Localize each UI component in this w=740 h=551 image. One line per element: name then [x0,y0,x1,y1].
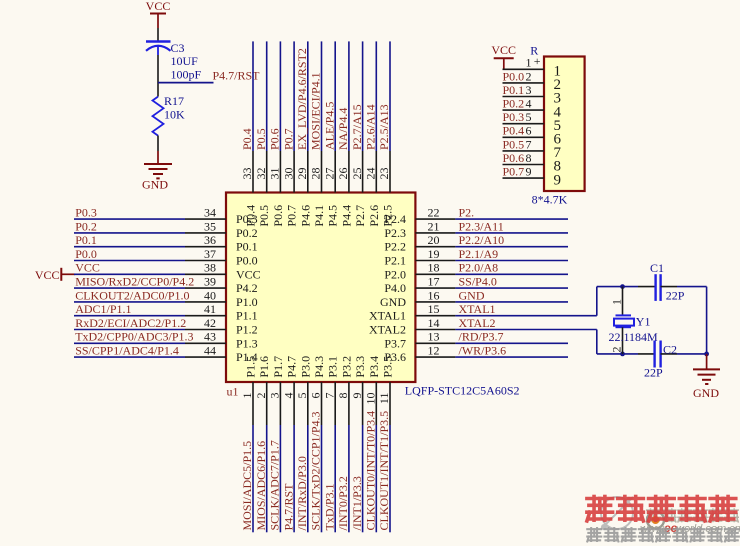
svg-text:LQFP-STC12C5A60S2: LQFP-STC12C5A60S2 [405,383,520,397]
svg-text:P4.1: P4.1 [312,205,326,227]
watermark url www.eeworld.com.cn [640,521,740,535]
resistor network R body [544,57,585,192]
svg-text:P2.0: P2.0 [384,267,406,281]
svg-text:Y1: Y1 [636,314,651,328]
svg-text:P2.4: P2.4 [384,212,406,226]
wire net CLKOUT2/ADC0/P1.0 (left) [74,301,185,303]
svg-text:VCC: VCC [75,261,100,275]
svg-text:SCLK/TxD2/CCP1/P4.3: SCLK/TxD2/CCP1/P4.3 [309,411,323,530]
pin 33 [252,151,254,193]
svg-text:P0.6: P0.6 [271,205,285,227]
pin 5 (R network) [503,123,545,125]
svg-text:C1: C1 [650,261,664,275]
wire net ALE/P4.5 (top) [334,41,336,151]
watermark eeworld logo [647,512,664,529]
svg-text:16: 16 [428,288,440,302]
wire XTAL1 riser [596,287,598,316]
svg-text:34: 34 [204,206,216,220]
svg-text:GND: GND [693,386,719,400]
svg-text:10: 10 [364,393,378,405]
junction node GND corner [704,352,709,357]
wire net MOSI/ECI/P4.1 (top) [321,41,323,151]
svg-text:ALE/P4.5: ALE/P4.5 [322,102,336,150]
svg-text:9: 9 [526,165,532,179]
pin 17 [415,287,455,289]
svg-text:P2.6: P2.6 [367,205,381,227]
wire net TxD/P3.1 (bottom) [334,425,336,532]
svg-text:P0.0: P0.0 [503,69,525,83]
capacitor C3 [146,42,171,56]
pin 19 [415,260,455,262]
pin 28 [321,151,323,193]
svg-text:P2.1/A9: P2.1/A9 [459,247,499,261]
pin 11 [389,382,391,425]
ground GND (crystal circuit) [693,354,720,400]
pin 41 [185,315,226,317]
crystal Y1 [614,287,634,354]
svg-text:21: 21 [428,219,440,233]
wire net P0.1 (left) [74,246,185,248]
pin 3 (R network) [503,96,545,98]
svg-text:44: 44 [204,344,216,358]
svg-text:MISO/RxD2/CCP0/P4.2: MISO/RxD2/CCP0/P4.2 [75,275,194,289]
svg-text:25: 25 [350,168,364,180]
svg-text:22.1184M: 22.1184M [609,330,659,344]
svg-text:ADC1/P1.1: ADC1/P1.1 [75,302,131,316]
pin 15 [415,315,455,317]
svg-text:41: 41 [204,302,216,316]
svg-text:RxD2/ECI/ADC2/P1.2: RxD2/ECI/ADC2/P1.2 [75,316,186,330]
svg-text:P2.7/A15: P2.7/A15 [350,104,364,150]
svg-text:7: 7 [526,137,532,151]
pin 4 [293,382,295,425]
svg-text:42: 42 [204,316,216,330]
svg-text:1: 1 [526,56,532,70]
svg-text:P0.7: P0.7 [281,128,295,150]
value label R17 10K [164,94,185,122]
junction node bottom [620,352,625,357]
pin 1 (R network) [503,68,545,70]
power VCC (left of MCU) [35,268,75,282]
svg-text:5: 5 [295,393,309,399]
svg-text:P4.4: P4.4 [339,205,353,227]
svg-text:P3.0: P3.0 [298,356,312,378]
svg-text:26: 26 [336,168,350,180]
svg-text:8: 8 [336,393,350,399]
wire net P0.7 (top) [293,41,295,151]
svg-text:P0.6: P0.6 [503,151,525,165]
svg-text:XTAL1: XTAL1 [459,302,496,316]
watermark grey text row (eeworld) [647,509,739,522]
wire C1 right to corner [677,286,707,288]
svg-text:/RD/P3.7: /RD/P3.7 [459,330,504,344]
svg-text:10UF: 10UF [171,54,199,68]
wire net /INT1/P3.3 (bottom) [362,425,364,532]
svg-text:TxD/P3.1: TxD/P3.1 [322,483,336,530]
pin 7 [334,382,336,425]
pin 42 [185,329,226,331]
svg-text:8: 8 [526,151,532,165]
watermark red title [587,496,736,521]
wire net MOSI/ADC5/P1.5 (bottom) [252,425,254,532]
svg-text:40: 40 [204,288,216,302]
svg-text:R17: R17 [164,94,184,108]
value label C3 10UF 100pF [171,41,202,82]
wire net SCLK/ADC7/P1.7 (bottom) [279,425,281,532]
wire net P0.6 (top) [279,41,281,151]
pin 39 [185,287,226,289]
svg-text:38: 38 [204,261,216,275]
svg-text:P4.7: P4.7 [285,356,299,378]
wire net SCLK/TxD2/CCP1/P4.3 (bottom) [321,425,323,532]
svg-text:CLKOUT1/INT/T1/P3.5: CLKOUT1/INT/T1/P3.5 [377,411,391,531]
svg-text:P0.3: P0.3 [503,110,525,124]
svg-text:4: 4 [526,97,532,111]
pin 37 [185,260,226,262]
svg-text:36: 36 [204,233,216,247]
svg-text:P1.6: P1.6 [257,356,271,378]
wire net P2.6/A14 (top) [375,41,377,151]
svg-text:1: 1 [240,393,254,399]
svg-text:5: 5 [526,110,532,124]
svg-text:15: 15 [428,302,440,316]
svg-text:2: 2 [609,347,623,353]
svg-text:+: + [534,54,541,68]
svg-text:P2.: P2. [459,206,475,220]
wire XTAL2 dropper [596,330,598,354]
svg-text:31: 31 [268,168,282,180]
svg-text:3: 3 [526,83,532,97]
wire net P2.3/A11 (right) [455,232,568,234]
pin 6 [321,382,323,425]
svg-text:GND: GND [459,288,485,302]
pin 38 [185,273,226,275]
pin 27 [334,151,336,193]
svg-text:SS/P4.0: SS/P4.0 [459,275,497,289]
svg-text:27: 27 [322,168,336,180]
svg-text:P1.2: P1.2 [236,323,258,337]
wire net ADC1/P1.1 (left) [74,315,185,317]
wire net P2.0/A8 (right) [455,273,568,275]
svg-text:XTAL2: XTAL2 [459,316,496,330]
wire node P4.7/RST [158,82,214,84]
pin 8 (R network) [503,164,545,166]
svg-text:P0.2: P0.2 [75,219,97,233]
resistor R17 [153,97,164,136]
svg-text:XTAL2: XTAL2 [369,323,406,337]
svg-text:8*4.7K: 8*4.7K [532,193,568,207]
wire net P0.3 (left) [74,218,185,220]
pin 32 [266,151,268,193]
svg-text:P0.1: P0.1 [503,83,525,97]
svg-text:22: 22 [428,206,440,220]
pin 5 [307,382,309,425]
svg-text:XTAL1: XTAL1 [369,309,406,323]
svg-text:7: 7 [322,393,336,399]
wire R17 to GND [157,136,159,152]
svg-text:P0.7: P0.7 [503,165,525,179]
watermark logo circle [601,497,633,530]
pin 25 [362,151,364,193]
pin 9 [362,382,364,425]
pin 34 [185,218,226,220]
pin 16 [415,301,455,303]
pin 3 [279,382,281,425]
svg-text:P2.3: P2.3 [384,226,406,240]
svg-text:17: 17 [428,275,440,289]
pin 24 [375,151,377,193]
svg-text:100pF: 100pF [171,68,202,82]
svg-text:P0.2: P0.2 [236,226,258,240]
wire net TxD2/CPP0/ADC3/P1.3 (left) [74,342,185,344]
svg-text:P2.6/A14: P2.6/A14 [364,104,378,150]
svg-text:P4.3: P4.3 [312,356,326,378]
svg-text:P0.0: P0.0 [236,254,258,268]
wire C2 right to GND corner [677,353,707,355]
svg-text:P2.2: P2.2 [384,240,406,254]
svg-text:32: 32 [254,168,268,180]
svg-text:28: 28 [309,168,323,180]
wire net RxD2/ECI/ADC2/P1.2 (left) [74,329,185,331]
svg-text:1: 1 [609,299,623,305]
svg-text:33: 33 [240,167,254,179]
svg-text:20: 20 [428,233,440,247]
pin 44 [185,356,226,358]
svg-text:P4.0: P4.0 [384,281,406,295]
svg-text:SCLK/ADC7/P1.7: SCLK/ADC7/P1.7 [268,440,282,530]
svg-text:P2.0/A8: P2.0/A8 [459,261,499,275]
wire net GND (right) [455,301,568,303]
wire net EX_LVD/P4.6/RST2 (top) [307,41,309,151]
wire net P2.1/A9 (right) [455,260,568,262]
svg-text:P4.2: P4.2 [236,281,258,295]
pin 13 [415,342,455,344]
wire net SS/CPP1/ADC4/P1.4 (left) [74,356,185,358]
svg-text:P3.1: P3.1 [326,356,340,378]
wire net SS/P4.0 (right) [455,287,568,289]
wire net MISO/RxD2/CCP0/P4.2 (left) [74,287,185,289]
ground GND (reset circuit) [142,151,172,191]
svg-text:2: 2 [526,69,532,83]
svg-text:VCC: VCC [35,268,60,282]
wire net P0.2 (left) [74,232,185,234]
wire net /RD/P3.7 (right) [455,342,568,344]
pin 40 [185,301,226,303]
svg-text:MOSI/ADC5/P1.5: MOSI/ADC5/P1.5 [240,441,254,531]
svg-text:3: 3 [268,393,282,399]
pin 18 [415,273,455,275]
svg-text:MOSI/ECI/P4.1: MOSI/ECI/P4.1 [309,72,323,150]
wire net CLKOUT0/INT/T0/P3.4 (bottom) [375,425,377,532]
svg-text:P0.2: P0.2 [503,97,525,111]
wire net /WR/P3.6 (right) [455,356,568,358]
wire net /INT/RxD/P3.0 (bottom) [307,425,309,532]
svg-text:14: 14 [428,316,440,330]
svg-text:P1.0: P1.0 [236,295,258,309]
pin 22 [415,218,455,220]
pin 14 [415,329,455,331]
svg-text:P1.3: P1.3 [236,336,258,350]
pin 43 [185,342,226,344]
svg-text:6: 6 [526,124,532,138]
capacitor C2 [638,341,677,368]
wire net P2. (right) [455,218,568,220]
svg-text:P0.1: P0.1 [75,233,97,247]
svg-text:u1: u1 [227,385,239,399]
svg-text:P3.2: P3.2 [339,356,353,378]
svg-text:/INT1/P3.3: /INT1/P3.3 [350,476,364,530]
pin 9 (R network) [503,177,545,179]
wire XTAL2 bottom run [597,353,638,355]
svg-text:P2.1: P2.1 [384,254,406,268]
wire net MIOS/ADC6/P1.6 (bottom) [266,425,268,532]
svg-text:P0.6: P0.6 [268,128,282,150]
watermark grey subtitle [587,528,739,541]
wire net XTAL2 (right) [455,329,596,331]
svg-text:CLKOUT0/INT/T0/P3.4: CLKOUT0/INT/T0/P3.4 [364,411,378,531]
pin 20 [415,246,455,248]
svg-text:35: 35 [204,219,216,233]
svg-text:P1.5: P1.5 [244,356,258,378]
svg-text:22P: 22P [644,365,663,379]
svg-text:MIOS/ADC6/P1.6: MIOS/ADC6/P1.6 [254,441,268,531]
svg-text:37: 37 [204,247,216,261]
svg-text:GND: GND [380,295,406,309]
wire C3 to R17 [157,55,159,97]
svg-text:/INT0/P3.2: /INT0/P3.2 [336,476,350,530]
svg-text:43: 43 [204,330,216,344]
svg-text:2: 2 [254,393,268,399]
svg-text:29: 29 [295,168,309,180]
svg-text:24: 24 [364,168,378,180]
svg-text:P0.7: P0.7 [285,205,299,227]
svg-text:P4.5: P4.5 [326,205,340,227]
pin 7 (R network) [503,150,545,152]
svg-text:P3.3: P3.3 [353,356,367,378]
svg-text:22P: 22P [666,288,685,302]
op-amp U1 body (MCU LQFP-STC12C5A60S2) [226,193,415,383]
svg-text:9: 9 [350,393,364,399]
svg-text:9: 9 [554,172,562,188]
svg-text:P0.0: P0.0 [75,247,97,261]
pin 30 [293,151,295,193]
wire net P2.2/A10 (right) [455,246,568,248]
svg-text:/WR/P3.6: /WR/P3.6 [459,344,507,358]
power VCC (resistor network) [491,43,516,69]
wire right vertical [706,287,708,354]
pin 31 [279,151,281,193]
pin 2 [266,382,268,425]
svg-text:NA/P4.4: NA/P4.4 [336,108,350,150]
svg-text:P3.5: P3.5 [381,356,395,378]
wire net P0.0 (left) [74,260,185,262]
svg-text:P0.4: P0.4 [503,124,525,138]
svg-text:P4.7/RST: P4.7/RST [281,483,295,531]
wire net P0.4 (top) [252,41,254,151]
wire net P2.7/A15 (top) [362,41,364,151]
svg-text:VCC: VCC [491,43,516,57]
wire VCC to C3 [157,28,159,42]
svg-text:10K: 10K [164,107,185,121]
svg-text:P1.1: P1.1 [236,309,258,323]
pin 26 [348,151,350,193]
pin 12 [415,356,455,358]
power VCC (reset circuit) [146,0,171,28]
pin 21 [415,232,455,234]
pin 2 (R network) [503,82,545,84]
junction node top [620,284,625,289]
pin 4 (R network) [503,109,545,111]
svg-text:P2.5/A13: P2.5/A13 [377,104,391,150]
pin 36 [185,246,226,248]
svg-text:GND: GND [142,177,168,191]
svg-text:/INT/RxD/P3.0: /INT/RxD/P3.0 [295,456,309,530]
svg-text:P0.5: P0.5 [254,128,268,150]
svg-text:P4.6: P4.6 [298,205,312,227]
svg-text:P2.2/A10: P2.2/A10 [459,233,505,247]
wire XTAL1 top run [597,286,638,288]
svg-text:P2.7: P2.7 [353,205,367,227]
svg-text:P2.3/A11: P2.3/A11 [459,219,504,233]
pin 23 [389,151,391,193]
svg-text:39: 39 [204,275,216,289]
svg-text:CLKOUT2/ADC0/P1.0: CLKOUT2/ADC0/P1.0 [75,288,189,302]
wire net /INT0/P3.2 (bottom) [348,425,350,532]
wire net P0.5 (top) [266,41,268,151]
wire net VCC (left) [74,273,185,275]
wire net P2.5/A13 (top) [389,41,391,151]
svg-text:6: 6 [309,393,323,399]
svg-text:VCC: VCC [146,0,171,13]
wire net XTAL1 (right) [455,315,596,317]
svg-text:23: 23 [377,168,391,180]
pin 29 [307,151,309,193]
pin 10 [375,382,377,425]
pin 8 [348,382,350,425]
capacitor C1 [638,274,677,301]
wire net NA/P4.4 (top) [348,41,350,151]
svg-text:12: 12 [428,344,440,358]
svg-text:11: 11 [377,393,391,405]
svg-text:C2: C2 [663,343,677,357]
svg-text:30: 30 [281,168,295,180]
svg-text:19: 19 [428,247,440,261]
pin 1 [252,382,254,425]
wire net P4.7/RST (bottom) [293,425,295,532]
svg-text:P0.1: P0.1 [236,240,258,254]
svg-text:4: 4 [281,393,295,399]
svg-text:P3.4: P3.4 [367,356,381,378]
svg-text:P3.7: P3.7 [384,336,406,350]
svg-text:P1.7: P1.7 [271,356,285,378]
pin 6 (R network) [503,136,545,138]
svg-text:C3: C3 [171,41,185,55]
svg-text:18: 18 [428,261,440,275]
svg-text:P0.3: P0.3 [236,212,258,226]
svg-text:TxD2/CPP0/ADC3/P1.3: TxD2/CPP0/ADC3/P1.3 [75,330,193,344]
svg-text:EX_LVD/P4.6/RST2: EX_LVD/P4.6/RST2 [295,48,309,150]
wire net CLKOUT1/INT/T1/P3.5 (bottom) [389,425,391,532]
svg-text:P0.4: P0.4 [240,128,254,150]
pin 35 [185,232,226,234]
svg-text:P0.5: P0.5 [503,137,525,151]
svg-text:VCC: VCC [236,267,261,281]
svg-text:P0.5: P0.5 [257,205,271,227]
svg-text:13: 13 [428,330,440,344]
svg-text:SS/CPP1/ADC4/P1.4: SS/CPP1/ADC4/P1.4 [75,344,179,358]
svg-text:P0.3: P0.3 [75,206,97,220]
